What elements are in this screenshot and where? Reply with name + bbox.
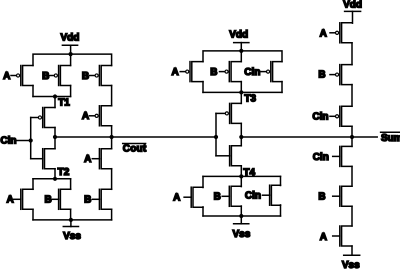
nmos Cin (Cout pass) <box>31 149 55 169</box>
svg-text:Cin: Cin <box>312 112 328 123</box>
svg-text:Vss: Vss <box>63 231 81 242</box>
svg-text:Cout: Cout <box>123 144 147 155</box>
nmos A (Cout pull-down parallel) <box>6 189 33 209</box>
svg-text:Vss: Vss <box>342 260 360 269</box>
wire A drain to T3 rail <box>202 82 204 93</box>
svg-text:B: B <box>42 71 49 82</box>
wire Sum node to pass nmos <box>240 137 242 146</box>
pmos B (Cout pull-up series) <box>82 66 112 86</box>
wire pass nmos source to T4 <box>240 166 242 177</box>
nmos B (Sum series) <box>318 186 352 206</box>
wire node T3 rail <box>203 91 282 93</box>
svg-text:Cin: Cin <box>245 191 261 202</box>
svg-text:T1: T1 <box>58 97 70 108</box>
svg-text:A: A <box>6 195 13 206</box>
nmos A (Sum series) <box>320 226 352 246</box>
wire series link A-B <box>351 43 353 65</box>
node Cin gate junction <box>29 138 33 142</box>
wire T3 to pass pmos <box>240 92 242 103</box>
wire Cin pmos drain to Cout node <box>54 128 56 138</box>
wire series pmos link <box>111 86 113 106</box>
wire A nmos source to Vss <box>32 209 34 220</box>
wire Vss rail (Cout stage) <box>33 219 112 221</box>
node Vdd rail junction (Sum stage) <box>239 49 243 53</box>
wire node T4 rail <box>203 175 281 177</box>
pmos Cin (Sum series) <box>312 106 352 126</box>
input Cin label <box>0 136 16 147</box>
svg-text:B: B <box>318 70 325 81</box>
wire Vdd rail (Sum stage) <box>203 51 282 62</box>
svg-text:B: B <box>82 71 89 82</box>
wire pass gate line <box>215 113 217 155</box>
node T1 <box>53 94 70 108</box>
wire pass pmos drain to Sum node <box>240 123 242 137</box>
pmos A (Cout pull-up parallel) <box>3 66 33 86</box>
wire series pmos to Sum line <box>351 126 353 137</box>
wire B source to Vdd (Sum) <box>240 51 242 62</box>
power symbol Vss (Sum stage) <box>233 214 251 240</box>
wire B nmos source to Vss <box>70 209 72 220</box>
wire series link B-A <box>351 206 353 226</box>
svg-text:A: A <box>82 111 89 122</box>
wire B drain to T1 rail <box>70 86 72 97</box>
wire T1 to Cin pmos <box>54 97 56 108</box>
nmos A (Sum pull-down parallel) <box>173 187 203 207</box>
svg-text:Cin: Cin <box>244 67 260 78</box>
svg-text:A: A <box>320 29 327 40</box>
power symbol Vss (series branch) <box>342 255 360 269</box>
node Vdd rail junction <box>69 52 73 56</box>
wire B drain to T3 rail <box>240 82 242 93</box>
svg-text:A: A <box>320 232 327 243</box>
wire Sum output line <box>241 136 377 138</box>
wire Cin nmos source to T2 <box>54 169 56 179</box>
pmos A (Cout pull-up series) <box>82 106 112 126</box>
pmos B (Sum series) <box>318 65 352 85</box>
wire A nmos drain to T2 <box>32 179 34 190</box>
svg-text:A: A <box>84 154 91 165</box>
pmos B (Sum pull-up parallel) <box>210 62 241 82</box>
wire series pmos drain to Cout <box>111 126 113 137</box>
power symbol Vss (Cout stage) <box>63 218 81 242</box>
power symbol Vdd (series branch) <box>343 0 362 23</box>
wire node T2 rail <box>33 178 71 180</box>
svg-text:Cin: Cin <box>0 136 16 147</box>
pmos Cin (Sum pull-up parallel) <box>244 62 282 82</box>
wire Cin input lead <box>17 140 31 142</box>
pmos Cin (Cout pass) <box>31 108 55 128</box>
svg-text:A: A <box>173 193 180 204</box>
svg-text:Vdd: Vdd <box>229 30 248 41</box>
wire node T1 rail <box>33 96 71 98</box>
pmos B (Cout pull-up parallel) <box>42 66 70 86</box>
wire Cout output line <box>55 136 216 138</box>
svg-text:A: A <box>171 67 178 78</box>
wire series link B-Cin <box>351 85 353 107</box>
nmos B (Cout pull-down series) <box>84 189 112 209</box>
svg-text:T3: T3 <box>244 94 256 105</box>
wire Vdd rail (Cout stage) <box>33 54 112 65</box>
wire Cin nmos to T4 <box>280 176 282 185</box>
node Sum stage output <box>239 135 243 139</box>
pmos A (Sum pull-up parallel) <box>171 62 203 82</box>
svg-text:B: B <box>210 67 217 78</box>
wire Cin drain to T3 rail <box>281 82 283 93</box>
nmos Cin (Sum pull-down parallel) <box>245 185 281 205</box>
wire A drain to T1 rail <box>32 86 34 97</box>
power symbol Vdd (Cout stage) <box>60 33 79 55</box>
pmos Coutbar (Sum pass) <box>216 103 241 123</box>
svg-text:Cin: Cin <box>313 152 329 163</box>
svg-text:B: B <box>318 192 325 203</box>
wire series link Cin-B <box>351 166 353 186</box>
node T3 <box>239 90 256 104</box>
nmos A (Cout pull-down series) <box>84 149 112 169</box>
node Cout output <box>53 135 57 139</box>
wire series nmos source to Vss rail <box>111 209 113 220</box>
nmos B (Sum pull-down parallel) <box>214 186 242 206</box>
nmos Coutbar (Sum pass) <box>216 146 241 166</box>
wire series nmos to Vss <box>351 246 353 255</box>
wire B nmos drain to T2 <box>70 179 72 190</box>
wire series nmos link <box>111 169 113 190</box>
svg-text:Vdd: Vdd <box>60 33 79 44</box>
wire Cin nmos to Vss (Sum) <box>280 205 282 216</box>
wire Vss rail (Sum stage) <box>203 215 281 217</box>
wire A nmos to Vss (Sum) <box>202 207 204 216</box>
wire Sum line to series nmos <box>351 137 353 146</box>
svg-text:A: A <box>3 71 10 82</box>
svg-text:Sum: Sum <box>381 133 400 144</box>
node series junction on Cout line <box>110 135 114 139</box>
wire Cin gate line <box>30 118 32 159</box>
nmos B (Cout pull-down parallel) <box>44 189 70 209</box>
wire Cout node to Cin nmos <box>54 137 56 149</box>
wire A nmos to T4 <box>202 176 204 187</box>
label Cout (active-low) <box>123 144 147 155</box>
label Sum (active-low) <box>381 132 400 144</box>
nmos Cin (Sum series) <box>313 146 352 166</box>
wire Cout line to series nmos <box>111 137 113 149</box>
power symbol Vdd (Sum stage) <box>229 30 249 51</box>
svg-text:B: B <box>84 195 91 206</box>
svg-text:B: B <box>44 195 51 206</box>
wire B source to Vdd <box>70 54 72 65</box>
node T4 <box>239 167 255 178</box>
node T2 <box>53 167 70 181</box>
svg-text:Vdd: Vdd <box>343 0 362 10</box>
node pass gate junction <box>214 135 218 139</box>
wire B nmos to T4 <box>240 176 242 186</box>
node Sum <box>350 135 354 139</box>
svg-text:T4: T4 <box>243 167 255 178</box>
pmos A (Sum series) <box>320 23 352 43</box>
svg-text:T2: T2 <box>58 167 70 178</box>
svg-text:Vss: Vss <box>233 229 251 240</box>
svg-text:B: B <box>214 192 221 203</box>
wire B nmos to Vss (Sum) <box>240 206 242 216</box>
